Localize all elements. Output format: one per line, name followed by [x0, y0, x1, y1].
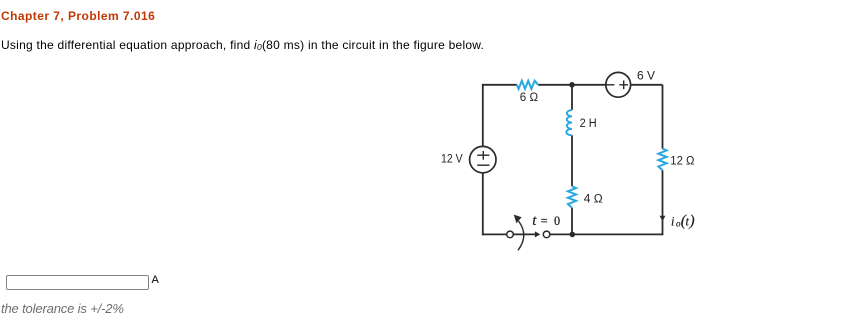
wire middle vertical (inductor to 4ohm) — [571, 135, 573, 186]
node A (top junction dot) — [569, 82, 575, 88]
resistor R2 4 Ohm (middle) — [568, 186, 576, 208]
switch SW1 terminal 2 — [543, 231, 550, 238]
wire left vertical upper — [482, 84, 484, 146]
wire right vertical lower — [662, 170, 664, 235]
wire bottom-left segment — [482, 233, 507, 235]
resistor R3 12 Ohm (right) — [658, 149, 666, 171]
voltage source V1 12 V (left) — [470, 146, 496, 172]
wire switch blade segment — [513, 233, 536, 235]
resistor R1 6 Ohm (top) — [517, 81, 538, 89]
wire middle vertical top (node to inductor) — [571, 85, 573, 110]
answer input box — [6, 275, 149, 290]
arrow current io (right branch, pointing down) — [660, 216, 666, 222]
wire right vertical upper — [662, 85, 664, 149]
inductor L1 2 H — [566, 110, 572, 135]
wire top-left segment — [483, 84, 517, 86]
svg-text:6 Ω: 6 Ω — [520, 90, 538, 104]
wire bottom-middle segment — [550, 233, 663, 235]
svg-text:4 Ω: 4 Ω — [584, 192, 603, 206]
switch SW1 motion arc — [518, 221, 524, 250]
svg-text:io(t): io(t) — [671, 213, 695, 230]
voltage source V2 6 V (top) — [606, 72, 631, 97]
switch SW1 terminal 1 — [507, 231, 514, 238]
svg-text:12 V: 12 V — [441, 152, 463, 166]
node B (bottom junction dot) — [570, 232, 576, 238]
svg-text:2 H: 2 H — [580, 116, 597, 130]
switch SW1 motion arc arrowhead — [514, 215, 522, 224]
svg-text:t=0: t=0 — [532, 213, 560, 229]
wire middle vertical bottom (4ohm to node) — [571, 208, 573, 235]
wire left vertical lower — [482, 173, 484, 236]
svg-text:12 Ω: 12 Ω — [670, 154, 694, 168]
switch SW1 blade arrowhead — [535, 231, 540, 237]
wire top-middle segment — [538, 84, 606, 86]
svg-text:6 V: 6 V — [637, 69, 656, 83]
wire top-right segment — [631, 84, 663, 86]
